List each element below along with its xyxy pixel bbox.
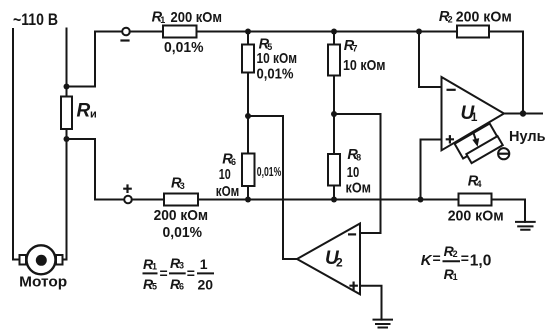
svg-text:4: 4 <box>477 179 482 189</box>
svg-text:2: 2 <box>448 15 453 25</box>
op-amp U1 <box>442 77 505 150</box>
svg-text:кОм: кОм <box>346 179 372 196</box>
svg-text:1: 1 <box>160 15 165 25</box>
wire branch Rи bottom to plus terminal <box>67 139 125 200</box>
svg-text:=: = <box>160 265 168 281</box>
node junction dot top of Rи <box>64 84 70 90</box>
svg-text:0,01%: 0,01% <box>164 39 204 56</box>
node dot top of R5 <box>245 29 251 35</box>
svg-text:R: R <box>77 101 91 122</box>
wire R2 right to U1 output node <box>489 32 523 114</box>
node dot U1 noninverting branch <box>418 197 424 203</box>
resistor Rи <box>61 97 72 130</box>
svg-text:и: и <box>90 109 97 121</box>
wire R7 bottom to R8 top <box>333 76 335 155</box>
wire R5 bottom to R6 top <box>247 73 249 154</box>
resistor R7 <box>328 45 340 76</box>
label minus inside U2 <box>348 233 356 235</box>
wire R7/R8 junction to U2 inverting input <box>334 114 381 233</box>
wire plus terminal to R3 <box>132 199 164 201</box>
svg-text:=: = <box>433 250 441 266</box>
wire bottom rail R3 to R4 <box>198 199 459 201</box>
motor M1 <box>27 245 56 274</box>
label plus inside U1 <box>446 135 454 143</box>
svg-text:200 кОм: 200 кОм <box>171 9 223 26</box>
svg-text:1,0: 1,0 <box>470 252 492 269</box>
svg-text:=: = <box>187 265 195 281</box>
resistor R6 <box>242 154 255 187</box>
svg-text:0,01%: 0,01% <box>257 165 282 179</box>
node dot R6 bottom <box>245 197 251 203</box>
wire R4 right to ground <box>492 200 526 222</box>
node dot top of R7 <box>331 29 337 35</box>
node dot U1 output <box>520 110 526 116</box>
resistor R5 <box>242 45 254 73</box>
wiper arrow of null pot <box>473 133 476 142</box>
wire R6 bottom to rail <box>247 186 249 200</box>
wire top rail R1 to R2 <box>197 31 458 33</box>
label plus inside U2 <box>349 282 358 291</box>
svg-text:10: 10 <box>219 166 231 183</box>
wire U1 output <box>504 113 542 115</box>
node dot Rи bottom <box>64 136 70 142</box>
svg-text:6: 6 <box>231 157 236 167</box>
svg-text:кОм: кОм <box>216 183 240 200</box>
svg-text:2: 2 <box>453 249 458 259</box>
resistor R3 <box>164 194 198 206</box>
potentiometer null adjust on U1 <box>455 123 503 165</box>
svg-text:200 кОм: 200 кОм <box>154 207 209 224</box>
wire R8 bottom to rail <box>333 186 335 200</box>
svg-text:200 кОм: 200 кОм <box>448 208 504 225</box>
label minus sign under terminal <box>122 39 129 41</box>
wire terminal to R1 <box>130 31 163 33</box>
resistor R1 <box>163 26 197 38</box>
op-amp U2 <box>297 224 360 295</box>
wire R5/R6 junction to U2 output apex <box>248 116 297 259</box>
svg-text:10 кОм: 10 кОм <box>257 50 298 67</box>
svg-text:~110 В: ~110 В <box>13 10 58 29</box>
terminal plus input <box>124 196 132 204</box>
wire U2 noninverting input to ground <box>360 286 382 320</box>
svg-text:1: 1 <box>471 110 478 124</box>
svg-text:3: 3 <box>179 261 184 271</box>
label plus at input terminal <box>123 184 132 193</box>
ground at R4 <box>516 222 535 230</box>
wire top rail into R7 <box>333 32 335 45</box>
svg-text:1: 1 <box>200 256 208 272</box>
svg-text:1: 1 <box>453 272 458 282</box>
wire right vertical from source to Rи <box>66 29 68 97</box>
svg-text:0,01%: 0,01% <box>257 66 294 83</box>
svg-text:2: 2 <box>336 256 343 270</box>
svg-text:6: 6 <box>179 282 184 292</box>
svg-text:7: 7 <box>353 43 358 53</box>
svg-text:200 кОм: 200 кОм <box>456 9 512 26</box>
svg-text:Мотор: Мотор <box>19 274 67 291</box>
label minus inside U1 <box>447 89 456 91</box>
node dot U1 inverting branch <box>416 29 422 35</box>
svg-text:Нуль: Нуль <box>509 128 546 145</box>
svg-text:0,01%: 0,01% <box>163 224 203 241</box>
node dot R8 bottom <box>331 197 337 203</box>
svg-text:20: 20 <box>198 276 214 292</box>
wire U1 noninverting input branch <box>421 140 442 200</box>
negative supply terminal of null pot <box>498 148 509 159</box>
wire branch from Rи top to minus terminal <box>67 32 123 87</box>
svg-text:3: 3 <box>180 181 185 191</box>
wire left vertical from source to motor <box>13 29 20 260</box>
svg-text:1: 1 <box>152 262 157 272</box>
svg-text:5: 5 <box>152 282 157 292</box>
resistor R8 <box>328 154 340 186</box>
wire U1 inverting input branch <box>419 32 442 88</box>
resistor R2 <box>457 26 489 38</box>
ground at U2 <box>374 320 393 328</box>
terminal minus input <box>122 28 130 36</box>
motor tabs <box>20 255 27 265</box>
svg-text:=: = <box>461 250 469 266</box>
svg-text:K: K <box>421 252 433 269</box>
wire Rи bottom down to motor <box>63 129 67 260</box>
resistor R4 <box>459 194 492 206</box>
svg-text:8: 8 <box>356 152 361 162</box>
node dot R7/R8 junction <box>331 111 337 117</box>
wire top rail into R5 <box>247 32 249 45</box>
node dot R5/R6 junction <box>245 113 251 119</box>
svg-text:10 кОм: 10 кОм <box>343 57 386 74</box>
